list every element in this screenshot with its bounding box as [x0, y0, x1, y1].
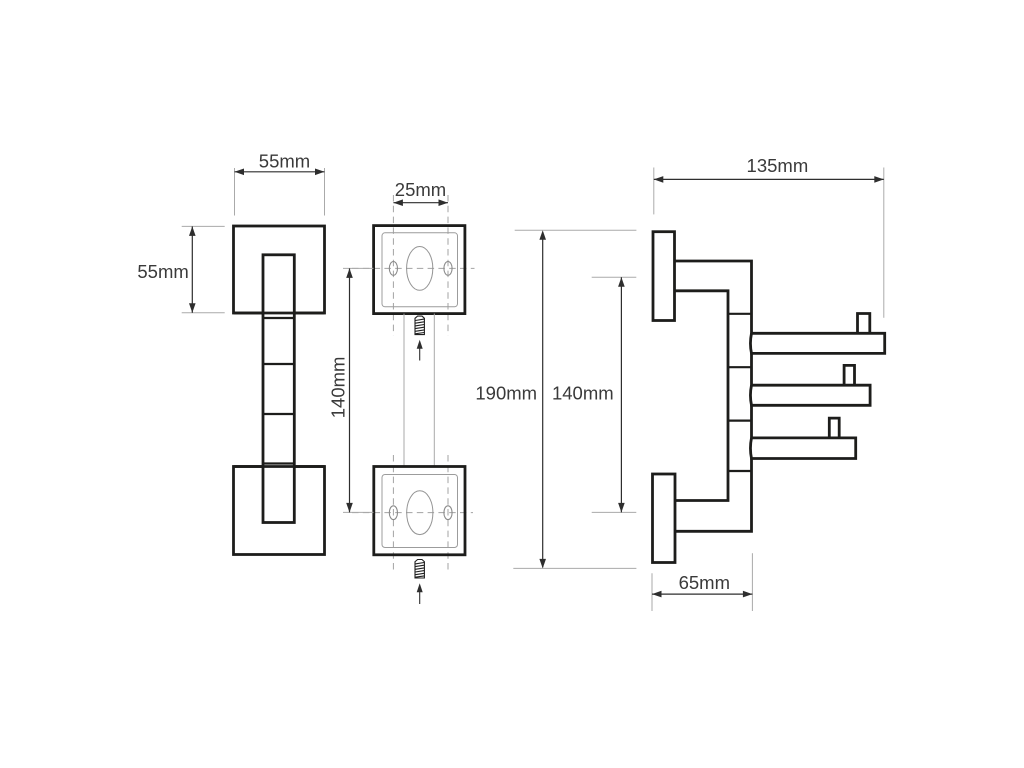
svg-text:25mm: 25mm [395, 179, 446, 200]
centerline dashed horizontal (top plate) [352, 267, 475, 269]
top plate central oval boss [407, 247, 433, 291]
centerline dashed vertical left (bottom plate) [392, 455, 394, 570]
dimension 140mm middle: dimension line with arrows [346, 268, 353, 512]
arm segment division line 2 [263, 363, 294, 365]
hook arm 3 (bottom) with pivot arc [750, 438, 855, 459]
post segment division line 3 [728, 420, 752, 422]
bottom plate central oval boss [407, 491, 433, 535]
dimension 140mm right view: extension line bottom [592, 511, 637, 513]
svg-text:140mm: 140mm [328, 357, 349, 419]
hook peg 3 [829, 418, 839, 438]
dimension 140mm middle: extension line top [343, 267, 374, 269]
hook peg 2 [844, 365, 854, 385]
dimension 55mm top: extension line left [234, 168, 236, 216]
top mounting plate outer border [374, 226, 465, 314]
hook peg 1 [858, 314, 870, 334]
svg-text:65mm: 65mm [679, 572, 730, 593]
dimension 55mm left: dimension line with arrows [189, 226, 196, 312]
threaded screw stud below bottom plate [415, 560, 424, 579]
svg-text:55mm: 55mm [137, 261, 188, 282]
arm projection line left (between plates) [403, 314, 405, 467]
dimension 140mm right view: dimension line with arrows [618, 277, 625, 512]
svg-text:190mm: 190mm [475, 383, 537, 404]
arm segment division line 4 [263, 462, 294, 464]
svg-text:140mm: 140mm [552, 383, 614, 404]
side view bottom wall plate [653, 474, 676, 563]
dimension 140mm middle: extension line bottom [343, 511, 374, 513]
side view top wall plate [653, 232, 675, 321]
top plate left screw hole [389, 262, 397, 276]
centerline dashed horizontal (bottom plate) [352, 512, 473, 514]
bottom plate right screw hole [444, 506, 452, 520]
bottom mounting plate outer border [374, 467, 465, 555]
dimension 135mm: extension line right [883, 168, 885, 318]
dimension 190mm: extension line top [515, 229, 637, 231]
front view bottom square plate [234, 467, 325, 555]
dimension 140mm right view: extension line top [592, 276, 637, 278]
top plate right screw hole [444, 262, 452, 276]
dimension 190mm: extension line bottom [513, 567, 636, 569]
dimension 65mm: extension line left [651, 573, 653, 611]
centerline dashed vertical right (top plate) [447, 195, 449, 336]
threaded screw stud below top plate [415, 316, 424, 335]
mounting direction arrow below bottom plate screw [417, 583, 423, 604]
svg-text:135mm: 135mm [747, 155, 809, 176]
dimension 25mm: dimension line with arrows [393, 199, 448, 206]
top mounting plate inner face [382, 233, 458, 307]
dimension 55mm left: extension line top [182, 225, 225, 227]
dimension 135mm: extension line left [653, 168, 655, 215]
centerline dashed vertical right (bottom plate) [447, 455, 449, 570]
centerline dashed vertical left (top plate) [392, 195, 394, 336]
dimension 65mm: extension line right [751, 553, 753, 611]
svg-text:55mm: 55mm [259, 150, 310, 171]
post segment division line 2 [728, 366, 752, 368]
dimension 55mm top: dimension line with arrows [235, 169, 325, 176]
arm segment division line 3 [263, 413, 294, 415]
front view central arm bar [263, 255, 294, 523]
mounting direction arrow below top plate screw [417, 340, 423, 361]
redraw top square bottom edge over bar [234, 312, 325, 315]
bottom mounting plate inner face [382, 475, 458, 548]
dimension 190mm: dimension line with arrows [539, 230, 546, 568]
top arm lower edge and post inner edge and bottom arm upper edge [675, 291, 729, 501]
bottom plate left screw hole [389, 506, 397, 520]
dimension 65mm: dimension line with arrows [652, 591, 752, 598]
hook arm 1 (top) with pivot arc [750, 333, 884, 353]
post segment division line 4 [728, 470, 752, 472]
redraw bottom square top edge over bar [234, 465, 325, 468]
dimension 55mm left: extension line bottom [182, 312, 225, 314]
arm projection line right (between plates) [433, 314, 435, 467]
top arm and post outer edge [675, 261, 752, 531]
post segment division line 1 [728, 313, 752, 315]
arm segment division line 1 [263, 317, 294, 319]
dimension 55mm top: extension line right [324, 168, 326, 216]
front view top square plate [234, 226, 325, 313]
dimension 135mm: dimension line with arrows [654, 176, 884, 183]
hook arm 2 (middle) with pivot arc [750, 385, 870, 405]
